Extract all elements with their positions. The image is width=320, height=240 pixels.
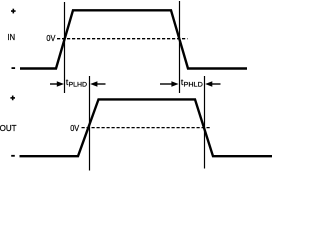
arrow: tPLHD left (points right at first cursor): [50, 81, 64, 86]
label tPHLD: [181, 77, 203, 89]
label - (IN minus): [12, 67, 16, 69]
wire: OUT 0V dashed line: [82, 127, 211, 129]
wire: IN waveform: [20, 10, 247, 68]
arrow: tPHLD right (points left at fourth cursor): [205, 81, 220, 86]
label + (IN plus): [11, 10, 16, 12]
svg-text:IN: IN: [7, 32, 15, 42]
svg-text:0V: 0V: [46, 33, 55, 43]
arrow: tPLHD right (points left at second cursor): [90, 81, 105, 86]
svg-text:PHLD: PHLD: [184, 82, 203, 89]
wire: OUT waveform: [20, 99, 273, 156]
node: cursor line at OUT falling-edge 0V crossing: [204, 76, 206, 169]
label + (OUT plus): [10, 97, 15, 99]
node: cursor line at OUT rising-edge 0V crossing: [89, 76, 91, 171]
label - (OUT minus): [11, 155, 15, 157]
svg-text:OUT: OUT: [0, 123, 17, 133]
svg-text:PLHD: PLHD: [69, 82, 88, 89]
node: cursor line at IN falling-edge 0V crossing: [179, 1, 181, 93]
arrow: tPHLD left (points right at third cursor): [160, 81, 179, 86]
node: cursor line at IN rising-edge 0V crossing: [64, 2, 66, 93]
label tPLHD: [66, 77, 87, 89]
svg-text:0V: 0V: [70, 123, 79, 133]
wire: IN 0V dashed line: [57, 38, 188, 40]
